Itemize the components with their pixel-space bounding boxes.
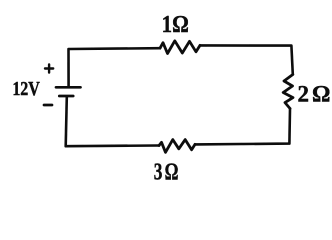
resistor R2 2Ω (right) — [283, 75, 293, 109]
battery V1 negative plate (short) — [59, 95, 73, 98]
battery minus sign — [44, 104, 52, 107]
wire top-left segment — [69, 48, 161, 87]
wire bottom-left segment — [66, 97, 159, 146]
battery V1 positive plate (long) — [56, 86, 81, 89]
svg-text:3Ω: 3Ω — [154, 158, 181, 186]
battery plus sign — [45, 64, 53, 72]
svg-text:2Ω: 2Ω — [298, 82, 332, 107]
wire bottom-right segment — [195, 109, 290, 145]
svg-text:12V: 12V — [12, 77, 40, 99]
wire top-right segment — [200, 45, 293, 74]
resistor R1 1Ω (top) — [160, 41, 200, 54]
resistor R3 3Ω (bottom) — [159, 140, 195, 153]
svg-text:1Ω: 1Ω — [162, 11, 189, 38]
